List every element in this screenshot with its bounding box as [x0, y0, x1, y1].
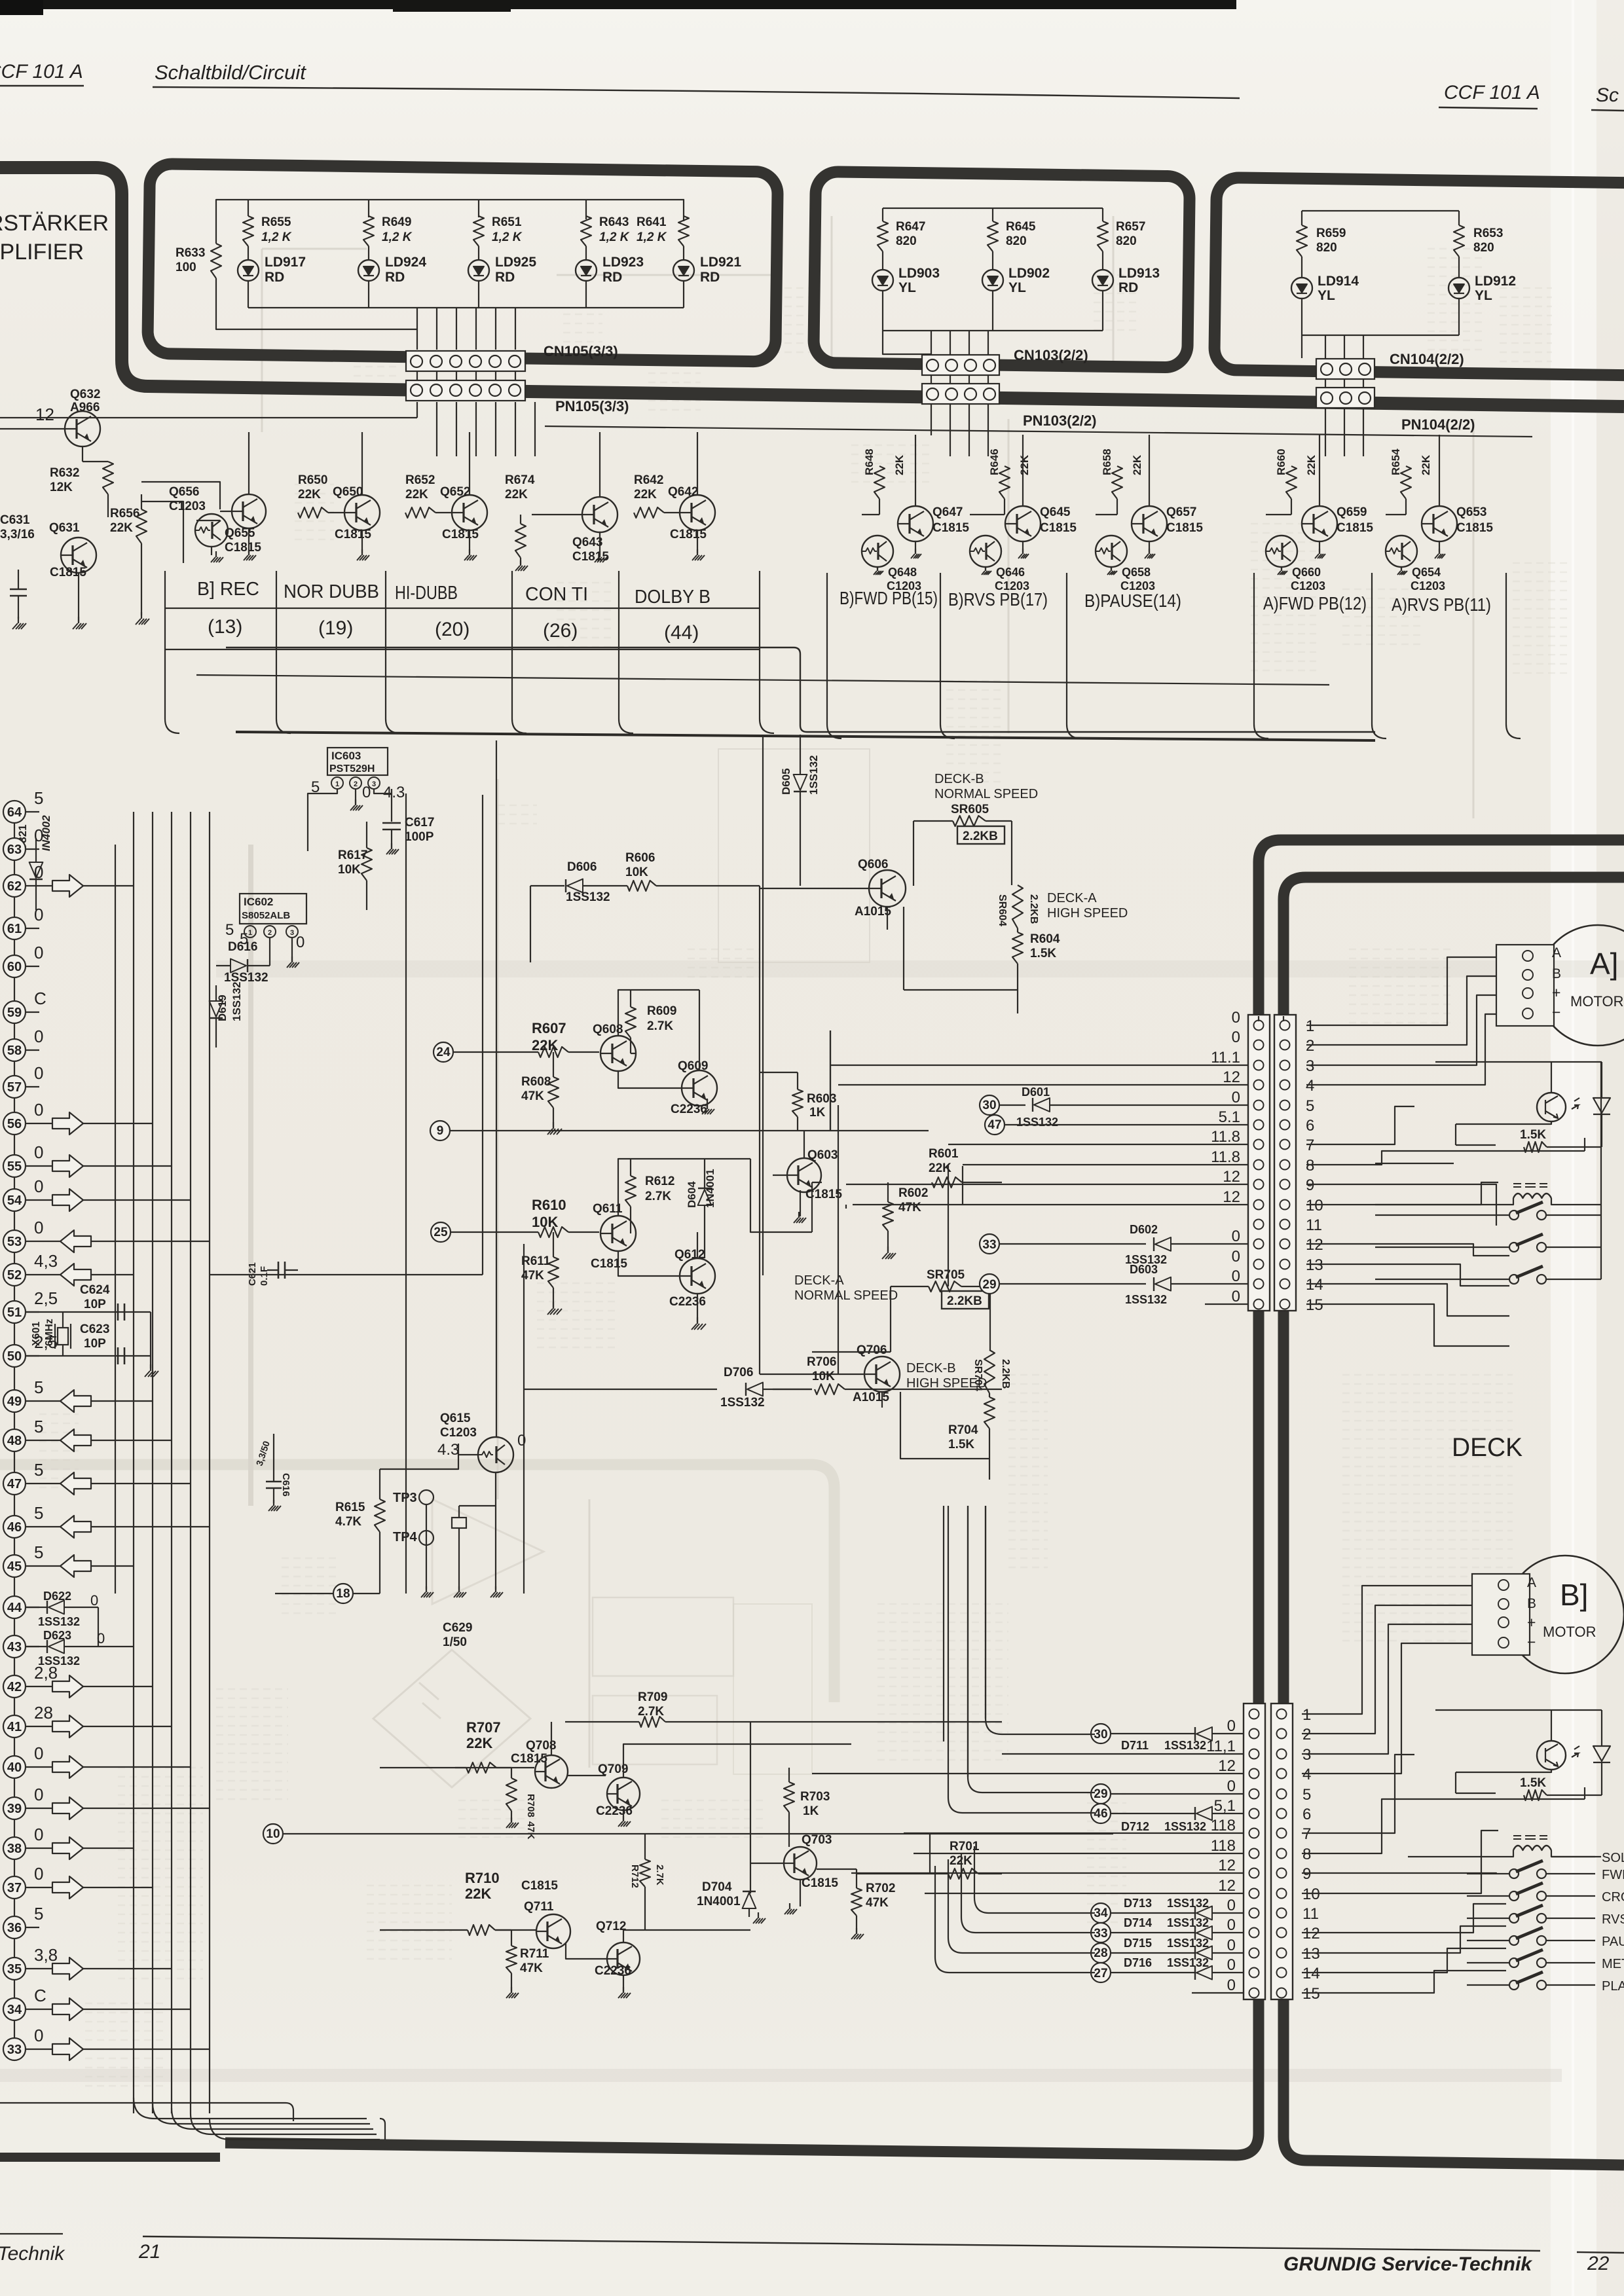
svg-text:YL: YL [898, 280, 916, 295]
wire Q643 collector [599, 432, 600, 498]
ghost bleed-through band 3 [0, 2069, 1562, 2082]
svg-text:3: 3 [1302, 1746, 1311, 1764]
wire pin 38 [25, 1848, 52, 1849]
svg-text:D704: D704 [702, 1880, 732, 1894]
svg-text:CRO: CRO [1602, 1890, 1624, 1904]
svg-text:1SS132: 1SS132 [807, 756, 820, 795]
ground R608 [553, 1122, 554, 1129]
svg-text:5: 5 [34, 1377, 43, 1397]
ground Q603 [800, 1190, 801, 1216]
connector PN104 [1316, 388, 1375, 408]
wire [248, 281, 249, 308]
wire CN104-PN104 links [1325, 379, 1363, 388]
svg-text:R650: R650 [298, 473, 327, 487]
wire row 10 [283, 1833, 1113, 1834]
svg-text:820: 820 [1473, 241, 1494, 255]
svg-text:6MHz: 6MHz [44, 1319, 55, 1346]
svg-text:36: 36 [7, 1921, 22, 1935]
svg-text:5: 5 [1302, 1786, 1311, 1804]
resistor R711 [506, 1946, 517, 1973]
ghost IC boxes [593, 1597, 733, 1676]
svg-text:LD902: LD902 [1008, 266, 1050, 281]
pin CNA-6 [1254, 1120, 1264, 1130]
svg-text:HIGH SPEED: HIGH SPEED [906, 1376, 987, 1391]
pin CNB-3 [1249, 1749, 1259, 1759]
svg-text:RD: RD [385, 270, 405, 285]
svg-text:CON TI: CON TI [525, 584, 588, 605]
switch B FWD [1509, 1869, 1519, 1878]
ground Q609 [707, 1104, 708, 1109]
board outline amplifier and PN bus [0, 168, 1624, 407]
wire Q606 collector [887, 907, 888, 930]
svg-text:Q711: Q711 [524, 1900, 554, 1914]
pin CNA-3 [1254, 1061, 1264, 1070]
pin CNB-15 [1249, 1988, 1259, 1998]
svg-text:3,3/16: 3,3/16 [0, 528, 35, 541]
svg-text:C1203: C1203 [440, 1426, 477, 1440]
pin CNA-12 [1254, 1239, 1264, 1249]
svg-text:Q648: Q648 [888, 566, 917, 579]
connector CN105 [406, 351, 525, 371]
IC IC603 [327, 748, 388, 775]
svg-text:22K: 22K [465, 1886, 491, 1902]
svg-text:A]: A] [1590, 947, 1618, 981]
transistor Q642 [680, 495, 715, 530]
svg-text:Q645: Q645 [1040, 505, 1071, 519]
resistor R674 vertical [515, 524, 526, 558]
svg-text:7: 7 [1302, 1825, 1311, 1843]
IC IC602 [240, 894, 306, 924]
svg-text:3: 3 [372, 780, 376, 788]
svg-text:PLA: PLA [1602, 1979, 1624, 1994]
svg-text:S8052ALB: S8052ALB [242, 910, 290, 921]
svg-text:35: 35 [7, 1962, 22, 1977]
pin node 33 A [980, 1234, 999, 1254]
svg-text:820: 820 [1316, 241, 1337, 255]
left pin column chain [14, 802, 15, 2059]
resistor R648 [874, 466, 885, 499]
svg-text:5: 5 [34, 1542, 43, 1562]
svg-text:LD921: LD921 [700, 255, 741, 270]
svg-text:52: 52 [7, 1268, 22, 1283]
resistor R645 [987, 221, 998, 251]
transistor Q647 [898, 506, 933, 541]
pin CNA-11 [1254, 1220, 1264, 1230]
resistor R646 [999, 466, 1010, 499]
transistor Q603 [787, 1158, 821, 1192]
svg-text:4: 4 [1302, 1766, 1311, 1783]
svg-text:Q642: Q642 [668, 485, 698, 499]
svg-text:R608: R608 [521, 1075, 551, 1089]
pin CNA-1 [1254, 1021, 1264, 1030]
wire row 2122 [524, 1244, 1002, 1594]
svg-text:C623: C623 [80, 1322, 109, 1336]
svg-text:0: 0 [34, 1027, 43, 1046]
svg-text:0: 0 [1227, 1897, 1236, 1914]
svg-text:0: 0 [1227, 1977, 1236, 1994]
pin CNA-8 [1254, 1160, 1264, 1170]
svg-text:118: 118 [1211, 1837, 1236, 1855]
svg-text:38: 38 [7, 1842, 22, 1856]
svg-text:R632: R632 [50, 466, 79, 480]
svg-text:DOLBY B: DOLBY B [635, 587, 710, 608]
svg-text:6: 6 [1306, 1117, 1314, 1135]
pin node 35 [3, 1958, 26, 1980]
ground Q647 [915, 541, 916, 553]
svg-text:820: 820 [896, 234, 917, 248]
svg-text:MOTOR: MOTOR [1543, 1624, 1596, 1640]
ground D704 [758, 1912, 759, 1918]
wires DECK-B right side [1302, 1586, 1482, 1774]
svg-text:1,2 K: 1,2 K [599, 230, 630, 244]
wire pin 39 [25, 1808, 52, 1809]
wire Q650 collector [361, 432, 363, 495]
svg-text:C2236: C2236 [669, 1295, 706, 1309]
svg-text:61: 61 [7, 922, 22, 936]
svg-text:R604: R604 [1030, 932, 1060, 946]
svg-text:1.5K: 1.5K [1520, 1776, 1546, 1790]
svg-text:RD: RD [1118, 280, 1138, 295]
svg-text:43: 43 [7, 1640, 22, 1654]
svg-text:2.2KB: 2.2KB [1028, 894, 1039, 924]
pin node 48 [3, 1429, 26, 1451]
wire CN105-PN105 links [417, 371, 515, 380]
wire Q645 collector [970, 435, 1023, 515]
pin CNA-7 [1254, 1140, 1264, 1150]
transistor Q654 [1386, 536, 1417, 567]
svg-text:A1015: A1015 [855, 905, 891, 919]
svg-text:+: + [1552, 984, 1560, 1001]
pin node 39 [3, 1797, 26, 1819]
wire Q650 base [328, 512, 344, 513]
svg-text:0: 0 [362, 784, 371, 801]
wires to CN105 [437, 308, 515, 350]
svg-text:4.3: 4.3 [437, 1441, 459, 1459]
svg-text:LD914: LD914 [1318, 274, 1359, 289]
svg-text:IC602: IC602 [244, 896, 273, 908]
capacitor C629 sym [452, 1518, 466, 1528]
wire LED box1 bottom bus [248, 307, 684, 308]
wires DECK-B left curves [950, 1724, 1105, 1973]
wire SR605 loop [913, 821, 1012, 886]
svg-text:3: 3 [1306, 1057, 1314, 1075]
svg-text:1.5K: 1.5K [948, 1438, 974, 1451]
svg-text:49: 49 [7, 1394, 22, 1409]
svg-text:12: 12 [1223, 1168, 1240, 1186]
svg-text:PN104(2/2): PN104(2/2) [1401, 416, 1475, 433]
wire Q655 base [141, 482, 232, 520]
diode D604 [698, 1190, 712, 1205]
svg-text:−: − [1527, 1633, 1536, 1650]
wire pin 42 [25, 1686, 52, 1687]
svg-text:R707: R707 [466, 1719, 501, 1736]
transistor Q660 [1266, 536, 1297, 567]
footer rule main [143, 2236, 1540, 2251]
svg-text:HI-DUBB: HI-DUBB [395, 583, 458, 604]
svg-text:41: 41 [7, 1720, 22, 1734]
svg-text:A: A [1552, 945, 1561, 960]
LED LD923 [585, 246, 587, 260]
svg-text:SR705: SR705 [927, 1268, 965, 1282]
svg-text:0: 0 [90, 1592, 98, 1609]
svg-text:0: 0 [34, 1743, 43, 1763]
ghost bridge rectifier [373, 1650, 530, 1787]
svg-text:R606: R606 [625, 851, 655, 865]
pin node 27 B [1091, 1963, 1111, 1982]
svg-text:5: 5 [34, 1460, 43, 1480]
wire Q653 collector [1386, 435, 1439, 515]
svg-text:PST529H: PST529H [329, 763, 375, 774]
ground Q709 [623, 1816, 624, 1821]
svg-text:CN104(2/2): CN104(2/2) [1390, 351, 1464, 367]
wire LED box2 top bus [883, 208, 1103, 221]
svg-text:30: 30 [1094, 1728, 1107, 1741]
svg-text:B)RVS PB(17): B)RVS PB(17) [948, 589, 1048, 610]
svg-text:R609: R609 [647, 1004, 676, 1018]
svg-text:22K: 22K [466, 1735, 492, 1751]
wire Q708 collector [551, 1722, 552, 1755]
capacitor C617 [391, 789, 392, 822]
svg-text:LD923: LD923 [602, 255, 644, 270]
svg-text:1SS132: 1SS132 [1167, 1937, 1209, 1950]
transistor Q653 [1422, 506, 1457, 541]
svg-text:64: 64 [7, 805, 22, 820]
pin node 60 [3, 955, 26, 977]
wires DECK-A vertical runs [830, 1030, 963, 1374]
wire LED box1 top bus [216, 200, 684, 244]
svg-text:6: 6 [1302, 1806, 1311, 1823]
svg-text:22K: 22K [1018, 454, 1031, 475]
pin CNA-9 [1254, 1180, 1264, 1190]
svg-text:R711: R711 [520, 1947, 549, 1961]
wire q612 bus [760, 1182, 822, 1232]
svg-text:CCF 101 A: CCF 101 A [0, 61, 83, 82]
pin CNA-4 [1254, 1080, 1264, 1090]
svg-text:C617: C617 [405, 816, 434, 829]
wires DECK-A right side [1306, 957, 1506, 1085]
svg-text:10K: 10K [812, 1370, 835, 1383]
svg-text:D606: D606 [567, 860, 597, 874]
switch B PLA [1509, 1980, 1519, 1990]
svg-text:0: 0 [1227, 1956, 1236, 1974]
board outline LED box 1 [147, 164, 778, 362]
svg-text:R657: R657 [1116, 220, 1145, 234]
svg-text:53: 53 [7, 1235, 22, 1249]
svg-text:DECK-B: DECK-B [906, 1361, 956, 1376]
svg-text:LD924: LD924 [385, 255, 426, 270]
svg-text:47: 47 [987, 1118, 1001, 1132]
pin CNB-7 [1249, 1829, 1259, 1838]
board outline deck inner [1283, 877, 1624, 2165]
svg-text:12: 12 [1218, 1877, 1236, 1895]
pin node 58 [3, 1039, 26, 1061]
pin CNB-1 [1249, 1709, 1259, 1719]
wires DECK-B rows left plain [1002, 1753, 1244, 1755]
svg-text:12: 12 [1218, 1857, 1236, 1874]
ground Q612 [697, 1294, 698, 1322]
svg-text:C1815: C1815 [225, 541, 261, 555]
svg-text:10: 10 [266, 1827, 280, 1841]
wire IC603 left [308, 789, 337, 851]
svg-text:5: 5 [34, 1904, 43, 1923]
svg-text:YL: YL [1008, 280, 1026, 295]
svg-text:Q655: Q655 [225, 526, 255, 540]
wire Q612 collector [697, 1159, 760, 1258]
resistor R659 [1297, 225, 1307, 257]
connector PN103 [922, 384, 999, 404]
motor B [1506, 1556, 1624, 1673]
svg-text:54: 54 [7, 1194, 22, 1208]
wire pin 47 [25, 1483, 60, 1484]
svg-text:2: 2 [1302, 1726, 1311, 1743]
pin node 55 [3, 1155, 26, 1177]
svg-text:33: 33 [982, 1238, 996, 1252]
LED LD903 [882, 251, 883, 270]
wire Q606 base [760, 888, 869, 889]
wire row 9 [450, 1130, 929, 1131]
wire Q642 collector [697, 432, 698, 495]
svg-text:Q658: Q658 [1122, 566, 1151, 579]
ground Q648 [877, 567, 878, 570]
svg-text:0: 0 [1227, 1937, 1236, 1954]
wire Q608 emitter to Q609 base [618, 1071, 682, 1088]
svg-text:47K: 47K [898, 1201, 921, 1214]
svg-text:34: 34 [7, 2003, 22, 2017]
resistor R651 [473, 216, 484, 246]
pin node 24 [434, 1042, 453, 1062]
svg-text:R654: R654 [1390, 448, 1402, 475]
wire pin 55 [25, 1165, 52, 1167]
svg-text:Sc: Sc [1596, 84, 1619, 106]
ghost outline mid [718, 749, 870, 962]
svg-text:15: 15 [1302, 1985, 1320, 2003]
svg-text:(20): (20) [435, 619, 470, 640]
wire pin 46 [25, 1526, 60, 1527]
wire [585, 281, 587, 308]
svg-text:62: 62 [7, 879, 22, 894]
footer rule left [0, 2233, 63, 2234]
switch A1 [1509, 1211, 1519, 1220]
resistor SR704 [984, 1350, 995, 1393]
LED LD917 [248, 246, 249, 260]
wire bundle verticals [133, 812, 134, 2113]
wire pin 41 [25, 1726, 52, 1727]
ground C631 [18, 617, 19, 623]
svg-text:0: 0 [34, 1218, 43, 1237]
wires DECK-A left [830, 1065, 1248, 1066]
ground Q643 [599, 532, 600, 555]
wire node18 [275, 1593, 380, 1594]
svg-text:8: 8 [1306, 1157, 1314, 1175]
svg-text:LD903: LD903 [898, 266, 940, 281]
svg-text:C2236: C2236 [595, 1964, 631, 1978]
ground Q656 [215, 551, 217, 557]
board outline LED box 3 [1214, 177, 1624, 376]
svg-text:RVS: RVS [1602, 1912, 1624, 1927]
connector CNB column2 [1271, 1704, 1293, 1999]
connector CN104 [1316, 359, 1375, 379]
pin CNB-8 [1249, 1849, 1259, 1859]
wire Q657 collector [1096, 435, 1149, 515]
ghost bleed-through band 2 [0, 1465, 834, 1702]
svg-text:Q703: Q703 [802, 1833, 832, 1847]
svg-text:11.1: 11.1 [1211, 1049, 1240, 1066]
wire pin 60 [25, 966, 39, 967]
svg-text:Q650: Q650 [333, 485, 363, 499]
svg-text:D603: D603 [1130, 1263, 1158, 1276]
svg-text:R712: R712 [629, 1865, 640, 1888]
wire Q609 collector [699, 990, 707, 1108]
wire photo B top [1435, 1710, 1602, 1793]
svg-text:R603: R603 [807, 1092, 836, 1106]
wire heavy bars gap nodes [1258, 1016, 1259, 1021]
svg-text:28: 28 [1094, 1946, 1107, 1960]
svg-text:Q646: Q646 [996, 566, 1025, 579]
wire pin 48 [25, 1440, 60, 1441]
svg-text:Q653: Q653 [1456, 505, 1486, 519]
pin node 59 [3, 1001, 26, 1023]
wire long verticals center [944, 1506, 986, 1777]
pin CNB-11 [1249, 1908, 1259, 1918]
svg-text:A)RVS PB(11): A)RVS PB(11) [1392, 594, 1491, 615]
resistor R647 [877, 221, 888, 251]
svg-text:DECK-B: DECK-B [934, 772, 984, 786]
transistor Q658 [1096, 536, 1127, 567]
wire base row Q632 [0, 417, 417, 418]
wire Q632 base [0, 428, 65, 429]
svg-text:D604: D604 [686, 1181, 698, 1208]
svg-text:R708: R708 [525, 1794, 536, 1817]
wire pin 50 [25, 1355, 39, 1357]
wire pin 43 [25, 1646, 39, 1647]
ground R656 [141, 612, 142, 619]
svg-text:1.5K: 1.5K [1520, 1128, 1546, 1142]
wire PN105 fanout [417, 402, 535, 456]
pin node 40 [3, 1756, 26, 1778]
wire Q652 base [435, 512, 452, 513]
wire bus mid [236, 732, 1375, 740]
svg-text:B: B [1527, 1596, 1536, 1611]
svg-text:18: 18 [336, 1587, 350, 1601]
svg-text:0: 0 [1232, 1009, 1240, 1027]
svg-text:C1815: C1815 [442, 528, 479, 541]
wire SR705 loop [891, 1286, 990, 1352]
ghost bleed-through band [216, 960, 1624, 977]
svg-text:5: 5 [34, 788, 43, 808]
svg-text:C616: C616 [280, 1473, 291, 1497]
svg-text:22K: 22K [893, 454, 906, 475]
svg-text:10K: 10K [625, 866, 648, 879]
svg-text:Q659: Q659 [1337, 505, 1367, 519]
wire Q706 base [760, 1374, 864, 1375]
svg-text:RD: RD [495, 270, 515, 285]
wire pin 63 [25, 848, 39, 850]
svg-text:C: C [34, 989, 46, 1008]
LED opto A [1593, 1062, 1610, 1144]
svg-text:C1203: C1203 [1291, 579, 1325, 592]
transistor Q655 [232, 494, 266, 528]
pin CNA-15 [1254, 1300, 1264, 1309]
svg-text:10: 10 [1302, 1886, 1320, 1903]
pin CNB-5 [1249, 1789, 1259, 1799]
svg-text:820: 820 [1006, 234, 1027, 248]
svg-text:0: 0 [1232, 1029, 1240, 1046]
svg-text:Q615: Q615 [440, 1412, 471, 1425]
svg-text:C1815: C1815 [1040, 521, 1077, 535]
resistor R712 [640, 1859, 650, 1887]
svg-text:0: 0 [1232, 1228, 1240, 1245]
pin node 34 B [1091, 1903, 1111, 1923]
